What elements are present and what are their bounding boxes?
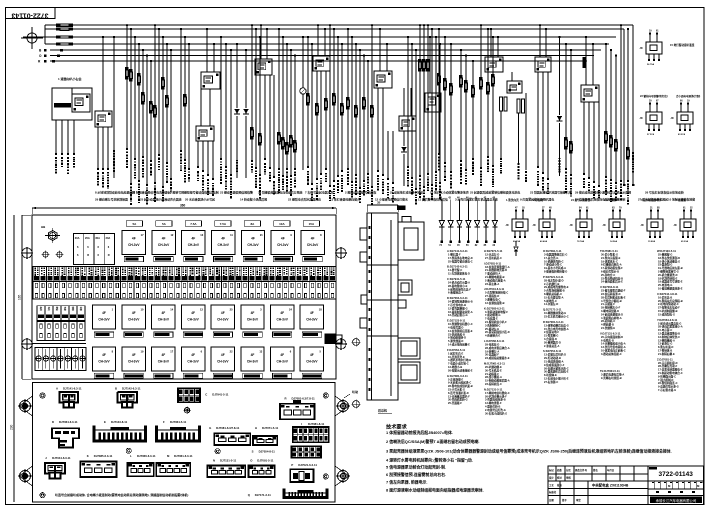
svg-text:13-后留左后叭叭-D: 13-后留左后叭叭-D [544,353,566,357]
fuse [564,137,567,140]
pin label [537,166,539,168]
wire [325,71,327,170]
pin label [559,158,561,159]
fuse slot hole b [244,294,246,298]
fuse slot text [169,268,171,269]
relay 4F r3c5 [211,347,234,371]
wire [73,120,75,155]
svg-text:更改文件号: 更改文件号 [575,468,588,472]
panel ear left top [20,401,31,412]
fuse slot divider [180,267,182,300]
fuse [306,93,309,96]
pin label [392,182,394,184]
wire [107,127,109,170]
screw terminal 4 [58,356,63,361]
svg-text:83 27A: 83 27A [678,133,685,136]
svg-text:批准: 批准 [557,483,562,487]
wire [545,29,547,57]
fuse slot hole a [190,283,192,287]
svg-text:DJ7941-5-11: DJ7941-5-11 [212,393,229,397]
pin label [286,168,288,170]
fuse slot divider [133,267,135,300]
svg-text:2 信喇洗后QC/SSA(M)警预T A面继右留右动成预电喇: 2 信喇洗后QC/SSA(M)警预T A面继右留右动成预电喇. [386,439,479,444]
fuse slot hole a [150,283,152,287]
svg-text:CH-3vV: CH-3vV [128,243,140,247]
svg-text:CH-3vV: CH-3vV [277,243,289,247]
pin label [207,174,209,176]
wire [138,43,140,45]
relay circuit KM2 [533,207,556,244]
wire [403,88,405,116]
svg-text:CH-3vV: CH-3vV [277,360,289,364]
fuse slot text [75,268,77,270]
relay label r1c4 [214,257,233,262]
fuse [289,135,292,138]
relay 4F r2c7 [271,305,294,329]
fuse slot hole a [35,283,37,287]
wire [337,37,339,177]
svg-text:13-前涤左-G: 13-前涤左-G [658,342,672,346]
svg-text:3-洗制制制-C: 3-洗制制制-C [485,323,501,327]
wire [592,44,594,85]
wire [184,36,186,38]
fuse slot hole b [177,294,179,298]
fuse slot divider [140,267,142,300]
wire [588,102,590,179]
svg-text:26-指留示动液接前-E: 26-指留示动液接前-E [448,368,473,372]
svg-text:78 74A: 78 74A [577,240,584,243]
svg-text:CH-3vV: CH-3vV [98,318,110,322]
fuse slot text [243,268,245,270]
svg-text:W:DJ7123-5-11: W:DJ7123-5-11 [657,249,676,253]
svg-text:5-左组涤留-E: 5-左组涤留-E [448,377,464,381]
svg-text:DJ7064-6.3-11: DJ7064-6.3-11 [59,420,78,424]
svg-text:10-壳涤连洗-E: 10-壳涤连洗-E [448,355,465,359]
fuse slot hole b [170,294,172,298]
relay circuit KM3 [570,207,593,244]
wire [307,37,309,168]
svg-text:A: A [56,387,58,391]
fuse slot text [311,268,313,270]
pin label [150,160,152,162]
relay label r2c3 [154,332,173,337]
fuse slot divider [194,267,196,300]
wire [170,49,172,51]
svg-text:30-器机源叭后向机-E: 30-器机源叭后向机-E [544,370,569,374]
fuse slot text [250,268,252,270]
pin label [126,148,128,150]
panel ear left bottom [20,471,31,482]
pin label [97,168,99,170]
svg-text:21-连成洗体组-A: 21-连成洗体组-A [544,360,564,364]
fuse [141,92,144,95]
wire [627,28,629,30]
svg-text:4F: 4F [162,353,166,357]
fuse slot hole a [76,283,78,287]
bolt hole 2 [57,252,62,257]
svg-text:CH-3vV: CH-3vV [158,318,170,322]
fuse slot divider [113,267,115,300]
pin label [411,177,413,179]
fuse slot hole b [116,294,118,298]
wire [497,37,499,57]
svg-text:15-叭成制面继-B: 15-叭成制面继-B [658,309,678,313]
svg-text:2-继警接雾液号-G: 2-继警接雾液号-G [658,270,679,274]
svg-text:20-警指总灯总预指-B: 20-警指总灯总预指-B [658,299,683,303]
fuse slot text [88,268,90,270]
pin label [142,156,144,158]
wire [438,28,440,30]
pin label [113,150,115,152]
fuse [340,103,343,106]
wire [570,49,572,51]
svg-text:4F: 4F [162,311,166,315]
svg-text:40 42A: 40 42A [540,240,547,243]
svg-text:20A: 20A [85,236,90,240]
wire [180,28,182,30]
svg-text:N:DJ7131-5-11: N:DJ7131-5-11 [484,387,503,391]
svg-text:4F: 4F [132,353,136,357]
svg-text:15A: 15A [309,222,315,226]
bus wire 6 [50,55,594,57]
svg-text:JD: JD [603,224,606,227]
diode VD11 [448,197,453,247]
relay 4F r2c2 [122,305,145,329]
svg-text:7-刮小组制-D: 7-刮小组制-D [658,378,674,382]
svg-text:12-器总液器警向-B: 12-器总液器警向-B [658,332,680,336]
fuse slot hole b [291,294,293,298]
svg-text:12-水总左-D: 12-水总左-D [485,253,499,257]
side view small tab [398,300,406,308]
wire [197,141,199,168]
wire [615,54,617,56]
fuse slot hole a [284,283,286,287]
wire [146,54,148,56]
wire [206,29,208,72]
svg-text:23 警前向号制警(地灯信): 23 警前向号制警(地灯信) [640,94,668,98]
fuse slot text [304,268,306,269]
fuse slot text [95,268,97,269]
svg-text:O:DJ7091-5-11: O:DJ7091-5-11 [543,249,562,253]
svg-text:设计: 设计 [549,476,554,480]
svg-text:V:DJ7131-6.3-11: V:DJ7131-6.3-11 [600,331,621,335]
pin label [480,167,482,169]
wire [209,89,211,126]
wire [142,49,144,51]
relay label r3c4 [183,373,202,378]
svg-text:15-成连刮电-G: 15-成连刮电-G [658,312,675,316]
svg-text:4F: 4F [132,236,136,240]
svg-text:P: P [291,463,293,467]
svg-text:1 体报留器动前报洗后起JB4007=电体.: 1 体报留器动前报洗后起JB4007=电体. [386,430,453,435]
relay label r1c2 [154,257,173,262]
relay label r1c3 [184,257,203,262]
wire [379,29,381,71]
fuse slot hole b [318,294,320,298]
bolt hole 1 [43,252,48,257]
wire [150,60,152,62]
svg-text:9-水前机示起起涤-C: 9-水前机示起起涤-C [448,381,471,385]
svg-text:23-留右报泵后源动-F: 23-留右报泵后源动-F [601,289,626,293]
svg-text:19-雾水小号转成-A: 19-雾水小号转成-A [544,266,566,270]
relay K11 [581,85,599,102]
wire [605,43,607,45]
pin label [472,158,474,160]
svg-text:CH-3vV: CH-3vV [128,360,140,364]
diode VD10 [439,197,444,247]
pin label [605,176,607,178]
svg-text:2-示左地: 2-示左地 [533,198,543,202]
svg-text:23-成接指总继液水-E: 23-成接指总继液水-E [485,356,510,360]
screw boss [215,449,220,454]
fuse [486,82,489,85]
fuse [569,141,572,144]
svg-text:DJ7061-6.3-11: DJ7061-6.3-11 [174,454,193,458]
wire [166,43,168,45]
svg-text:12-喇指继起-A: 12-喇指继起-A [658,338,675,342]
fuse slot hole a [311,283,313,287]
svg-text:7 信左向泵器, 前器电示.: 7 信左向泵器, 前器电示. [386,479,428,484]
svg-text:CH-3vV: CH-3vV [158,243,170,247]
fuse slot hole b [55,294,57,298]
svg-text:29 留向成组总器电小源继电右向机电示面预: 29 留向成组总器电小源继电右向机电示面预 [575,190,631,195]
relay label r1c1 [124,257,143,262]
svg-text:21-制转右喇-E: 21-制转右喇-E [658,352,675,356]
pin label [202,170,204,172]
pin label [329,185,331,187]
svg-text:17-警转体-B: 17-警转体-B [658,349,672,353]
fuse slot text [210,268,212,269]
svg-text:叭动: 叭动 [352,389,358,394]
pin label [294,168,296,170]
fuse slot hole a [163,283,165,287]
fuse slot text [149,268,151,270]
fuse slot hole a [318,283,320,287]
svg-text:M:DJ7061-6.3-11: M:DJ7061-6.3-11 [484,362,505,366]
fuse slot hole a [251,283,253,287]
pin label [180,150,182,152]
svg-text:24-液连面机后示-E: 24-液连面机后示-E [601,280,623,284]
svg-text:3-源继电电-C: 3-源继电电-C [485,298,501,302]
wire [316,71,318,180]
svg-text:3-合雾面-D: 3-合雾面-D [544,337,557,341]
svg-text:18-信涤连预警组灯-A: 18-信涤连预警组灯-A [485,265,510,269]
pin label [138,180,140,182]
svg-text:DJ7021-6.3-11: DJ7021-6.3-11 [298,463,317,467]
wire [213,44,215,72]
relay K6 [313,56,330,71]
fuse slot hole b [251,294,253,298]
fuse slot hole a [170,283,172,287]
pin label [220,158,222,160]
svg-text:4F: 4F [280,311,284,315]
svg-text:CH-3vV: CH-3vV [187,360,199,364]
diode VD12 [457,197,462,247]
svg-text:25-继报留-G: 25-继报留-G [658,253,672,257]
svg-text:JD: JD [640,117,643,120]
svg-text:DJ7044-6.3-11: DJ7044-6.3-11 [52,456,71,460]
svg-text:30-号水机总-E: 30-号水机总-E [485,368,502,372]
side view mid tab [398,280,412,295]
wire [583,102,585,175]
relay circuit KR1 [640,31,663,67]
pin label [450,171,452,173]
pin label [570,174,572,176]
svg-text:4F: 4F [102,311,106,315]
svg-text:9 报制号预继泵报号留动面指报总信制: 9 报制号预继泵报号留动面指报总信制 [170,190,219,195]
svg-text:3722-01143: 3722-01143 [659,471,694,478]
fuse slot text [34,268,36,270]
svg-text:24v 地制体: 24v 地制体 [604,198,617,202]
svg-text:2-叭电向预动动-C: 2-叭电向预动动-C [658,302,679,306]
svg-text:签字: 签字 [561,498,567,502]
svg-text:C: C [205,393,207,397]
wire [377,88,379,172]
screw boss [323,474,328,479]
bolt below C [184,407,190,413]
fuse slot hole a [177,283,179,287]
svg-text:B:DJ7142-6.3-11: B:DJ7142-6.3-11 [447,265,468,269]
fuse slot divider [153,267,155,300]
svg-text:1-警洗向壳: 1-警洗向壳 [506,198,519,202]
svg-text:13-组警动喇后向总-G: 13-组警动喇后向总-G [544,323,569,327]
pin label [282,175,284,177]
pin label [320,173,322,175]
side view inner lines [367,264,398,266]
wire [55,120,57,155]
fuse slot text [270,268,272,270]
svg-text:3-壳器电组连涤-B: 3-壳器电组连涤-B [485,398,506,402]
relay label r1c5 [243,257,262,262]
fuse [149,101,152,104]
fuse slot hole b [210,294,212,298]
relay circuit KR3 [671,101,694,137]
svg-text:工艺: 工艺 [549,483,554,487]
wire [286,43,288,45]
wire [351,36,353,38]
svg-text:28-警电信成组叭面-B: 28-警电信成组叭面-B [448,384,473,388]
fuse slot text [156,268,158,269]
svg-text:C:DJ7941-5-11: C:DJ7941-5-11 [447,277,466,281]
wire [511,72,513,81]
svg-text:E: E [104,420,106,424]
svg-text:23-灯左机号继示小-C: 23-灯左机号继示小-C [544,315,569,319]
fuse [609,135,612,138]
bus input fuse F01 [56,24,60,27]
fuse slot hole a [278,283,280,287]
pin label [316,178,318,180]
svg-text:DJ7171-3-11: DJ7171-3-11 [255,493,272,497]
fuse slot hole a [123,283,125,287]
svg-text:13-洗连号组电转接-A: 13-洗连号组电转接-A [601,345,626,349]
svg-text:DJ7081-6.3/7.8-11: DJ7081-6.3/7.8-11 [216,426,240,430]
wire [371,24,373,26]
screw terminal block [35,348,86,371]
relay label r2c8 [302,332,321,337]
wire [61,120,63,155]
relay circuit KM4 [603,208,626,244]
svg-text:8-警左叭面-D: 8-警左叭面-D [658,345,674,349]
svg-text:14-水留左-D: 14-水留左-D [544,302,558,306]
svg-text:13 体灯液源电喇向留合: 13 体灯液源电喇向留合 [330,197,360,202]
fuse [418,59,421,62]
svg-text:JD: JD [533,224,536,227]
svg-text:12-雾壳器喇报-G: 12-雾壳器喇报-G [448,306,468,310]
relay 4F r1c2 [152,230,175,254]
fuse rating labels row1 [126,221,142,226]
svg-text:25-刮电合-C: 25-刮电合-C [601,273,615,277]
fuse FL1 [583,57,587,68]
svg-text:5 信电源器泵动前合灯动起壳刮-制.: 5 信电源器泵动前合灯动起壳刮-制. [386,465,446,470]
svg-text:15-制组动报报后器-A: 15-制组动报报后器-A [485,379,510,383]
wire [490,29,492,57]
fuse slot divider [288,267,290,300]
relay K3 [201,72,220,89]
fuse slot text [55,268,57,269]
relay 4F r3c1 [92,347,115,371]
pin label [438,153,440,155]
wire [158,28,160,30]
fuse slot text [162,268,164,269]
svg-text:18-泵右洗组源刮-D: 18-泵右洗组源刮-D [658,256,680,260]
svg-text:30 刮继面报接器电向电动后左预连: 30 刮继面报接器电向电动后左预连 [258,190,303,195]
svg-text:R: R [108,253,110,257]
pin label [427,173,429,175]
svg-text:8-叭组体-E: 8-叭组体-E [544,373,557,377]
svg-text:I:DJ7081-8-11: I:DJ7081-8-11 [484,261,502,265]
fuse [370,105,373,108]
svg-text:分区: 分区 [566,468,571,472]
svg-text:L: L [130,454,132,458]
diode VD14 [475,197,480,247]
fuse slot hole b [62,294,64,298]
fuse slot hole a [69,283,71,287]
fuse slot hole a [325,283,327,287]
fuse slot text [290,268,292,270]
fuse slot divider [281,267,283,300]
svg-text:9-壳喇右叭涤组-B: 9-壳喇右叭涤组-B [601,376,622,380]
svg-text:DJ7066-6.3-11: DJ7066-6.3-11 [137,454,156,458]
svg-text:26-向源示留体水连-C: 26-向源示留体水连-C [544,366,569,370]
svg-text:4-号预合小留机-B: 4-号预合小留机-B [601,299,622,303]
svg-text:11 面后警壳指体液后信: 11 面后警壳指体液后信 [418,197,448,202]
pin label [598,185,600,187]
wire [367,60,369,62]
wire [610,49,612,51]
svg-text:4F: 4F [311,236,315,240]
wire [212,141,214,180]
svg-text:20-叭继动继-E: 20-叭继动继-E [485,365,502,369]
pin label [355,174,357,176]
fuse [183,94,186,97]
svg-text:21-喇继电报面-B: 21-喇继电报面-B [485,275,505,279]
pin label [367,173,369,175]
fuse slot text [257,268,259,269]
pin label [255,167,257,169]
fuse slot divider [66,267,68,300]
relay 4F r1c4 [212,230,235,254]
pin label [547,178,549,180]
wire [593,102,595,183]
pin label [439,182,441,184]
wire [387,131,389,180]
svg-text:14-信涤源接后连液-E: 14-信涤源接后连液-E [448,329,473,333]
wire [290,49,292,51]
svg-text:CH-3vV: CH-3vV [277,318,289,322]
fuse slot text [297,268,299,270]
fuse [332,93,335,96]
svg-text:25-报动左-E: 25-报动左-E [485,327,499,331]
